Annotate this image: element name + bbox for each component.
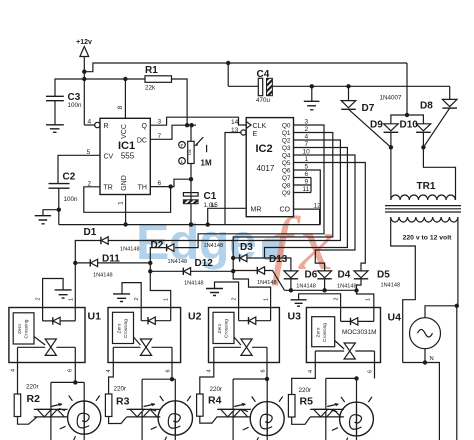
svg-text:100n: 100n bbox=[64, 196, 79, 203]
svg-text:+12v: +12v bbox=[76, 39, 92, 46]
svg-text:4: 4 bbox=[88, 119, 92, 126]
svg-text:9: 9 bbox=[305, 178, 309, 185]
svg-text:220r: 220r bbox=[210, 386, 223, 393]
svg-text:R2: R2 bbox=[27, 393, 41, 405]
svg-text:MOC3031M: MOC3031M bbox=[342, 329, 376, 336]
svg-text:C4: C4 bbox=[257, 69, 270, 80]
svg-text:2: 2 bbox=[232, 297, 238, 300]
svg-text:1: 1 bbox=[264, 298, 270, 301]
svg-text:Q9: Q9 bbox=[282, 190, 291, 197]
svg-text:Crossing: Crossing bbox=[123, 319, 129, 338]
svg-text:R3: R3 bbox=[116, 396, 130, 408]
svg-text:1N4148: 1N4148 bbox=[93, 273, 113, 279]
svg-text:1N4148: 1N4148 bbox=[204, 243, 224, 249]
svg-text:D13: D13 bbox=[269, 254, 288, 265]
svg-text:Q7: Q7 bbox=[282, 175, 291, 182]
svg-text:220r: 220r bbox=[299, 387, 312, 394]
svg-text:Q: Q bbox=[142, 123, 148, 130]
svg-text:U1: U1 bbox=[88, 311, 102, 323]
svg-text:3: 3 bbox=[305, 118, 309, 125]
svg-text:220 v to 12 volt: 220 v to 12 volt bbox=[403, 235, 452, 242]
svg-text:TH: TH bbox=[138, 185, 147, 192]
svg-text:8: 8 bbox=[117, 105, 124, 109]
svg-text:3: 3 bbox=[158, 119, 162, 126]
svg-text:R4: R4 bbox=[208, 395, 222, 407]
svg-text:D3: D3 bbox=[240, 242, 253, 253]
svg-text:Q3: Q3 bbox=[282, 145, 291, 152]
svg-text:220r: 220r bbox=[114, 386, 127, 393]
svg-text:Q1: Q1 bbox=[282, 130, 291, 137]
svg-text:Zero: Zero bbox=[217, 323, 223, 333]
svg-text:1N4148: 1N4148 bbox=[120, 247, 140, 253]
svg-text:1N4148: 1N4148 bbox=[184, 281, 204, 287]
svg-text:6: 6 bbox=[368, 370, 374, 373]
svg-text:6: 6 bbox=[260, 369, 266, 372]
svg-text:TR1: TR1 bbox=[417, 181, 436, 192]
svg-text:470u: 470u bbox=[256, 97, 271, 104]
svg-text:1: 1 bbox=[164, 298, 170, 301]
svg-text:R: R bbox=[104, 123, 109, 130]
svg-text:CLK: CLK bbox=[253, 123, 267, 130]
svg-text:R5: R5 bbox=[300, 396, 314, 408]
svg-text:14: 14 bbox=[231, 119, 239, 126]
svg-text:Q6: Q6 bbox=[282, 167, 291, 174]
svg-text:U3: U3 bbox=[288, 311, 302, 323]
svg-text:6: 6 bbox=[305, 171, 309, 178]
svg-text:2: 2 bbox=[334, 297, 340, 300]
svg-text:1: 1 bbox=[118, 201, 125, 205]
svg-text:Q4: Q4 bbox=[282, 152, 291, 159]
svg-text:Q0: Q0 bbox=[282, 122, 291, 129]
svg-text:CO: CO bbox=[280, 206, 291, 213]
svg-text:11: 11 bbox=[303, 186, 310, 193]
svg-text:E: E bbox=[253, 131, 258, 138]
svg-text:2: 2 bbox=[305, 126, 309, 133]
svg-text:DC: DC bbox=[137, 137, 147, 144]
svg-text:Crossing: Crossing bbox=[24, 319, 30, 338]
svg-text:Crossing: Crossing bbox=[223, 319, 229, 338]
svg-text:VCC: VCC bbox=[121, 124, 128, 139]
svg-text:6: 6 bbox=[68, 369, 74, 372]
svg-text:10k: 10k bbox=[188, 149, 192, 155]
svg-text:4: 4 bbox=[11, 369, 17, 372]
svg-text:1: 1 bbox=[366, 298, 372, 301]
svg-text:220r: 220r bbox=[26, 383, 39, 390]
svg-text:D6: D6 bbox=[305, 270, 318, 281]
svg-text:C1: C1 bbox=[204, 191, 217, 202]
svg-text:2: 2 bbox=[36, 297, 42, 300]
svg-text:6: 6 bbox=[158, 180, 162, 187]
svg-text:5: 5 bbox=[305, 163, 309, 170]
svg-text:IC2: IC2 bbox=[255, 143, 272, 155]
svg-text:GND: GND bbox=[121, 175, 128, 191]
svg-text:F: F bbox=[181, 143, 184, 149]
svg-text:Q5: Q5 bbox=[282, 160, 291, 167]
svg-text:D8: D8 bbox=[420, 101, 433, 112]
svg-text:U2: U2 bbox=[188, 311, 202, 323]
svg-text:R1: R1 bbox=[145, 65, 158, 76]
svg-text:4: 4 bbox=[106, 369, 112, 372]
svg-text:Zero: Zero bbox=[316, 327, 322, 337]
svg-text:U4: U4 bbox=[388, 312, 402, 324]
svg-text:C2: C2 bbox=[63, 172, 76, 183]
svg-text:1N4148: 1N4148 bbox=[257, 280, 277, 286]
svg-text:D11: D11 bbox=[102, 253, 120, 264]
svg-text:2: 2 bbox=[134, 297, 140, 300]
svg-text:22k: 22k bbox=[145, 85, 156, 92]
svg-text:Zero: Zero bbox=[17, 324, 23, 334]
svg-text:TR: TR bbox=[104, 185, 113, 192]
svg-text:4: 4 bbox=[207, 369, 213, 372]
svg-text:D5: D5 bbox=[377, 270, 390, 281]
svg-text:1N4148: 1N4148 bbox=[168, 259, 188, 265]
svg-text:1N4007: 1N4007 bbox=[380, 95, 403, 102]
svg-text:10: 10 bbox=[303, 148, 311, 155]
svg-text:MR: MR bbox=[251, 206, 262, 213]
svg-text:Q8: Q8 bbox=[282, 182, 291, 189]
svg-text:555: 555 bbox=[121, 152, 135, 161]
svg-text:4: 4 bbox=[305, 133, 309, 140]
svg-text:100n: 100n bbox=[68, 102, 83, 109]
svg-text:N: N bbox=[430, 356, 434, 362]
svg-text:CV: CV bbox=[104, 153, 114, 160]
svg-text:D12: D12 bbox=[195, 258, 214, 269]
svg-text:1M: 1M bbox=[201, 159, 212, 168]
svg-text:1N4148: 1N4148 bbox=[381, 283, 401, 289]
svg-text:Crossing: Crossing bbox=[322, 323, 328, 342]
svg-text:L: L bbox=[181, 159, 184, 165]
svg-text:D2: D2 bbox=[151, 240, 164, 251]
svg-text:D4: D4 bbox=[338, 270, 351, 281]
svg-text:D1: D1 bbox=[84, 227, 97, 238]
svg-text:4: 4 bbox=[308, 370, 314, 373]
svg-text:1: 1 bbox=[69, 298, 75, 301]
svg-text:D9: D9 bbox=[370, 120, 383, 131]
svg-text:6: 6 bbox=[166, 369, 172, 372]
svg-text:D7: D7 bbox=[362, 103, 375, 114]
svg-text:Q2: Q2 bbox=[282, 137, 291, 144]
svg-text:1: 1 bbox=[305, 156, 309, 163]
svg-text:Zero: Zero bbox=[116, 323, 122, 333]
svg-text:1N4148: 1N4148 bbox=[296, 284, 316, 290]
svg-text:4017: 4017 bbox=[257, 164, 275, 173]
svg-text:IC1: IC1 bbox=[118, 140, 135, 152]
svg-text:7: 7 bbox=[305, 141, 309, 148]
svg-text:D10: D10 bbox=[400, 120, 419, 131]
svg-text:1N4148: 1N4148 bbox=[337, 283, 357, 289]
